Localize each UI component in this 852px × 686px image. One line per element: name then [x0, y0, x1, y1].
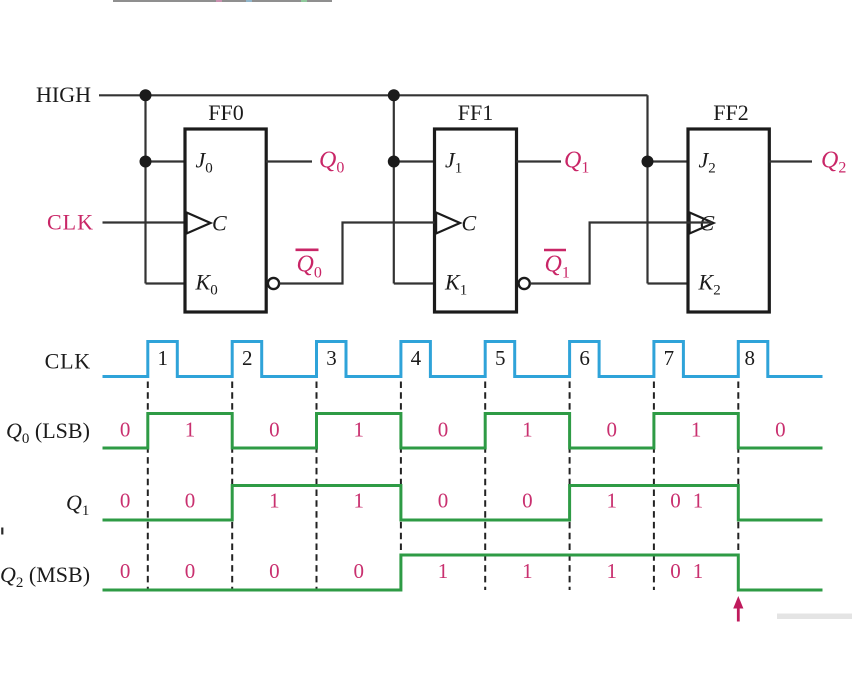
recycle pointer arrow — [733, 596, 743, 622]
wire: Q0 output — [266, 160, 312, 162]
Q2 state value 0 — [269, 559, 280, 583]
Q2 state value 1 — [438, 559, 449, 583]
svg-text:HIGH: HIGH — [36, 82, 91, 107]
Q2 state value 0 — [185, 559, 196, 583]
pin label K0 — [195, 270, 218, 299]
timing label Q2 (MSB) — [0, 562, 90, 591]
node Q0 output label — [319, 148, 344, 177]
svg-text:4: 4 — [411, 346, 422, 370]
svg-text:0: 0 — [438, 489, 449, 513]
Q1 state value 1 — [269, 489, 280, 513]
svg-text:0: 0 — [120, 489, 131, 513]
dashed timing guide line 6 — [569, 382, 571, 591]
Q0 waveform (green) — [103, 414, 823, 449]
node Q1-bar label — [544, 250, 570, 282]
svg-text:0: 0 — [670, 559, 681, 583]
net HIGH label — [36, 82, 91, 107]
node Q0-bar label — [296, 250, 322, 282]
FF1 pin label C — [462, 211, 477, 236]
svg-text:3: 3 — [326, 346, 337, 370]
svg-text:FF2: FF2 — [713, 100, 748, 125]
Q1 state value 1 — [353, 489, 364, 513]
svg-text:CLK: CLK — [45, 349, 91, 374]
clock pulse number 5 — [495, 346, 506, 370]
Q0 state value 1 — [691, 418, 702, 442]
svg-text:8: 8 — [745, 346, 756, 370]
FF2 clock edge triangle — [690, 213, 714, 234]
svg-text:0: 0 — [607, 418, 618, 442]
svg-text:0: 0 — [120, 418, 131, 442]
svg-text:1: 1 — [438, 559, 449, 583]
timing label Q0 (LSB) — [6, 418, 90, 447]
svg-text:5: 5 — [495, 346, 506, 370]
Q0 state value 1 — [522, 418, 533, 442]
FF0 Q-bar inversion bubble — [268, 278, 279, 289]
wire: HIGH rail — [99, 94, 648, 96]
pin label J1 — [445, 148, 462, 177]
junction dot on HIGH rail at FF0 feed — [140, 89, 152, 101]
FF1 Q-bar inversion bubble — [519, 278, 530, 289]
wire: J2 input stub — [648, 160, 689, 162]
wire: Q1 output — [517, 160, 562, 162]
Q2 waveform (green) — [103, 555, 823, 590]
Q0 state value 1 — [353, 418, 364, 442]
FF1 clock edge triangle — [436, 213, 460, 234]
Q1 state value 0 — [438, 489, 449, 513]
Q0 state value 0 — [269, 418, 280, 442]
Q1 state value 0 — [522, 489, 533, 513]
svg-text:0: 0 — [269, 418, 280, 442]
svg-text:0: 0 — [353, 559, 364, 583]
node Q2 output label — [821, 148, 846, 177]
svg-text:6: 6 — [579, 346, 590, 370]
svg-text:0: 0 — [670, 489, 681, 513]
pin label K1 — [444, 270, 467, 299]
svg-text:1: 1 — [353, 489, 364, 513]
Q1 state value 0 (extra) — [670, 489, 681, 513]
svg-text:0: 0 — [120, 559, 131, 583]
flip-flop FF2 name label — [713, 100, 748, 125]
svg-text:0: 0 — [438, 418, 449, 442]
flip-flop FF0 box — [185, 129, 266, 312]
svg-text:1: 1 — [158, 346, 169, 370]
svg-text:0: 0 — [522, 489, 533, 513]
FF0 pin label C — [212, 211, 227, 236]
Q2 state value 0 — [120, 559, 131, 583]
Q2 state value 1 — [607, 559, 618, 583]
wire: CLK to FF0 — [103, 221, 186, 223]
clock pulse number 6 — [579, 346, 590, 370]
pin label K2 — [698, 270, 721, 299]
svg-text:0: 0 — [269, 559, 280, 583]
wire: K1 input stub — [394, 282, 435, 284]
clock pulse number 8 — [745, 346, 756, 370]
wire: K2 input stub — [648, 282, 689, 284]
wire: Q2 output — [769, 160, 812, 162]
cropped artifact tick left edge — [1, 528, 3, 535]
dashed timing guide line 8 — [737, 382, 739, 554]
flip-flop FF0 name label — [208, 100, 243, 125]
svg-text:1: 1 — [522, 559, 533, 583]
Q2 state value 1 — [522, 559, 533, 583]
wire: J1 input stub — [394, 160, 435, 162]
wire: K0 input stub — [146, 282, 186, 284]
Q0 state value 0 — [607, 418, 618, 442]
wire: Q0-bar to FF1 clock — [279, 223, 434, 284]
svg-text:FF1: FF1 — [458, 100, 493, 125]
svg-text:2: 2 — [242, 346, 253, 370]
dashed timing guide line 3 — [316, 382, 318, 591]
svg-text:0: 0 — [185, 489, 196, 513]
Q2 state value 0 (extra) — [670, 559, 681, 583]
junction dot at J0 input — [140, 156, 152, 168]
pin label J2 — [699, 148, 716, 177]
Q0 state value 0 — [438, 418, 449, 442]
svg-text:CLK: CLK — [47, 210, 94, 235]
flip-flop FF1 name label — [458, 100, 493, 125]
timing label Q1 — [66, 490, 89, 519]
dashed timing guide line 7 — [653, 382, 655, 591]
junction dot at J1 input — [388, 156, 400, 168]
svg-text:1: 1 — [693, 489, 704, 513]
svg-text:C: C — [212, 211, 227, 236]
Q1 state value 0 — [120, 489, 131, 513]
svg-text:1: 1 — [269, 489, 280, 513]
clock pulse number 1 — [158, 346, 169, 370]
svg-text:Q0 (LSB): Q0 (LSB) — [6, 418, 90, 447]
clock pulse number 3 — [326, 346, 337, 370]
svg-text:7: 7 — [664, 346, 675, 370]
CLK input label — [47, 210, 94, 235]
FF2 pin label C — [700, 211, 715, 236]
dashed timing guide line 5 — [484, 382, 486, 591]
FF0 clock edge triangle — [187, 213, 211, 234]
clock pulse number 2 — [242, 346, 253, 370]
svg-text:1: 1 — [691, 418, 702, 442]
wire: HIGH feed vertical to FF0 — [144, 95, 146, 283]
Q0 state value 0 — [120, 418, 131, 442]
flip-flop FF2 box — [688, 129, 769, 312]
svg-text:1: 1 — [607, 559, 618, 583]
Q1 waveform (green) — [103, 486, 823, 521]
wire: HIGH feed vertical to FF2 — [646, 95, 648, 283]
faint watermark bottom right — [777, 614, 852, 620]
svg-text:1: 1 — [607, 489, 618, 513]
CLK waveform (blue) — [103, 342, 823, 377]
svg-text:0: 0 — [775, 418, 786, 442]
node Q1 output label — [564, 148, 589, 177]
junction dot at J2 input — [642, 156, 654, 168]
svg-text:1: 1 — [185, 418, 196, 442]
wire: HIGH feed vertical to FF1 — [393, 95, 395, 283]
wire: J0 input stub — [146, 160, 186, 162]
svg-text:FF0: FF0 — [208, 100, 243, 125]
svg-text:1: 1 — [522, 418, 533, 442]
svg-text:Q2 (MSB): Q2 (MSB) — [0, 562, 90, 591]
clock pulse number 4 — [411, 346, 422, 370]
dashed timing guide line 2 — [231, 382, 233, 591]
Q2 state value 1 (extra) — [693, 559, 704, 583]
dashed timing guide line 1 — [147, 382, 149, 591]
Q1 state value 1 — [607, 489, 618, 513]
pin label J0 — [196, 148, 213, 177]
flip-flop FF1 box — [435, 129, 517, 312]
Q1 state value 1 (extra) — [693, 489, 704, 513]
Q0 state value 0 — [775, 418, 786, 442]
clock pulse number 7 — [664, 346, 675, 370]
dashed timing guide line 4 — [400, 382, 402, 591]
wire: Q1-bar to FF2 clock — [530, 223, 712, 284]
svg-text:0: 0 — [185, 559, 196, 583]
junction dot on HIGH rail at FF1 feed — [388, 89, 400, 101]
svg-text:1: 1 — [693, 559, 704, 583]
timing label CLK — [45, 349, 91, 374]
svg-text:C: C — [462, 211, 477, 236]
cropped artifact line top edge — [113, 0, 332, 2]
Q0 state value 1 — [185, 418, 196, 442]
svg-text:1: 1 — [353, 418, 364, 442]
Q1 state value 0 — [185, 489, 196, 513]
Q2 state value 0 — [353, 559, 364, 583]
